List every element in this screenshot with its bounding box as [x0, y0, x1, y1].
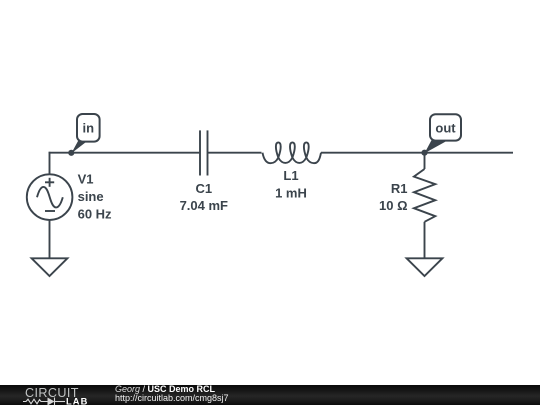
svg-text:60 Hz: 60 Hz [78, 206, 112, 221]
svg-text:1 mH: 1 mH [275, 186, 307, 201]
svg-text:sine: sine [78, 189, 104, 204]
svg-text:10 Ω: 10 Ω [379, 198, 408, 213]
svg-text:C1: C1 [195, 181, 212, 196]
svg-text:L1: L1 [283, 168, 298, 183]
svg-text:out: out [435, 121, 456, 136]
svg-text:7.04 mF: 7.04 mF [180, 198, 228, 213]
svg-text:V1: V1 [78, 172, 94, 187]
svg-text:LAB: LAB [66, 396, 88, 405]
svg-text:R1: R1 [391, 181, 408, 196]
svg-text:in: in [83, 121, 95, 136]
